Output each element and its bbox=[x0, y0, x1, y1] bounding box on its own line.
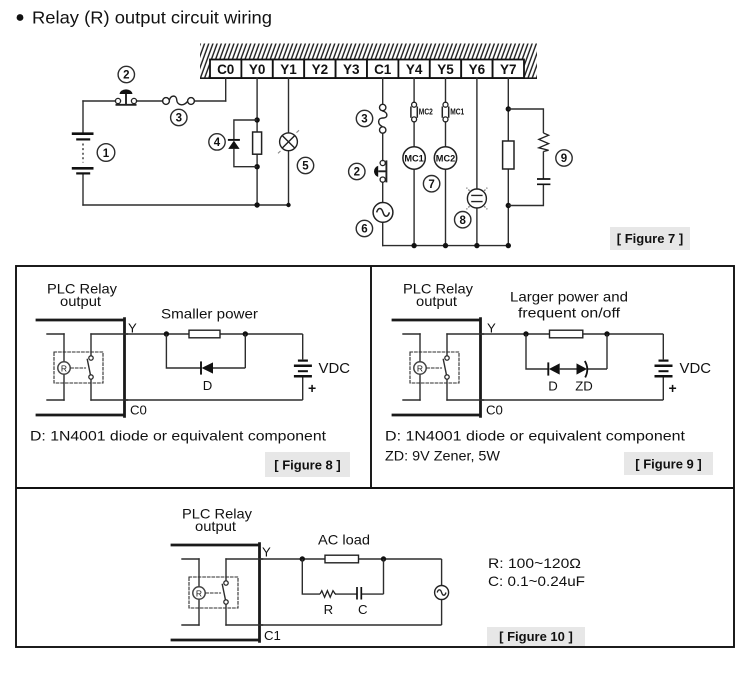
svg-text:Larger power and: Larger power and bbox=[510, 289, 628, 305]
svg-text:Y: Y bbox=[128, 321, 137, 336]
circled label 4 bbox=[209, 134, 225, 150]
junction node Y7 bottom corner bbox=[506, 243, 511, 248]
circled label 2 bbox=[118, 66, 134, 82]
AC source (6) bbox=[373, 203, 393, 223]
load resistor box on Y0 bbox=[253, 132, 262, 154]
wire battery bottom lead bbox=[82, 175, 84, 206]
svg-text:Y4: Y4 bbox=[406, 62, 423, 77]
wire C1 external (fig10) bbox=[260, 624, 442, 626]
neon lamp (8) bbox=[467, 188, 488, 210]
fuse (3) vertical on C1 bbox=[379, 104, 387, 133]
svg-text:2: 2 bbox=[123, 70, 129, 82]
resistor R zigzag (fig10) bbox=[320, 591, 336, 598]
Figure 9 tag bbox=[624, 452, 713, 475]
svg-text:AC load: AC load bbox=[318, 533, 370, 548]
svg-text:MC1: MC1 bbox=[404, 153, 423, 163]
wire bottom horizontal bbox=[83, 204, 289, 206]
wire Y external (fig8) bbox=[125, 333, 303, 335]
svg-text:Smaller power: Smaller power bbox=[161, 306, 258, 322]
junction node Y7 top bbox=[506, 106, 511, 111]
junction nodes on AC bottom wire bbox=[411, 243, 416, 248]
wire Y external (fig9) bbox=[481, 333, 664, 335]
junction node left (fig9) bbox=[523, 331, 528, 336]
junction node left (fig10) bbox=[300, 556, 305, 561]
junction node Y7 bottom bbox=[506, 203, 511, 208]
panel vertical divider bbox=[370, 266, 372, 488]
terminal strip bottom edge bbox=[200, 77, 537, 79]
svg-text:C1: C1 bbox=[264, 628, 281, 643]
wire C0 external (fig8) bbox=[125, 399, 303, 401]
svg-text:[ Figure 8 ]: [ Figure 8 ] bbox=[274, 458, 340, 473]
load resistor box (fig8) bbox=[189, 330, 220, 338]
snubber capacitor bbox=[537, 179, 550, 184]
svg-text:C0: C0 bbox=[486, 403, 503, 418]
zener diode ZD (fig9) bbox=[577, 363, 588, 374]
svg-text:VDC: VDC bbox=[319, 360, 351, 377]
wire Y4 column bbox=[413, 78, 415, 245]
wire Y external (fig10) bbox=[260, 558, 442, 560]
circled label 7 bbox=[423, 176, 439, 192]
circled label 3 (C1) bbox=[356, 110, 372, 126]
svg-text:Y3: Y3 bbox=[343, 62, 360, 77]
diode D (fig8) bbox=[200, 361, 202, 374]
svg-text:R: 100~120Ω: R: 100~120Ω bbox=[488, 556, 581, 571]
svg-text:ZD: 9V Zener, 5W: ZD: 9V Zener, 5W bbox=[385, 449, 500, 464]
svg-text:4: 4 bbox=[214, 137, 221, 149]
wire Y1 column upper bbox=[288, 78, 290, 133]
wire C0 drop bbox=[225, 78, 227, 101]
svg-text:C: C bbox=[358, 602, 368, 617]
svg-text:MC2: MC2 bbox=[419, 107, 433, 117]
svg-text:+: + bbox=[669, 380, 677, 396]
junction node Y0 top bbox=[254, 117, 259, 122]
svg-text:MC1: MC1 bbox=[450, 107, 464, 117]
diode branch wires (fig9) bbox=[526, 334, 607, 369]
wire Y1 column lower bbox=[288, 151, 290, 205]
svg-text:3: 3 bbox=[361, 114, 367, 126]
svg-text:VDC: VDC bbox=[680, 360, 712, 377]
Figure 8 tag bbox=[265, 452, 350, 477]
svg-text:D: 1N4001 diode or equivalent: D: 1N4001 diode or equivalent component bbox=[385, 429, 685, 444]
svg-text:5: 5 bbox=[302, 161, 309, 173]
svg-text:Y2: Y2 bbox=[312, 62, 329, 77]
svg-text:D: D bbox=[548, 379, 558, 394]
circled label 2 (C1) bbox=[349, 163, 365, 179]
load resistor box on Y7 bbox=[503, 141, 514, 169]
Figure 7 tag bbox=[610, 227, 690, 250]
terminal strip hatched body bbox=[200, 44, 537, 79]
PLC relay output block (Figure 9) bbox=[393, 282, 484, 417]
fuse (3) horizontal bbox=[163, 96, 195, 105]
Figure 10 tag bbox=[487, 627, 585, 646]
svg-text:D: D bbox=[203, 378, 213, 393]
svg-text:Y1: Y1 bbox=[280, 62, 297, 77]
svg-text:C: 0.1~0.24uF: C: 0.1~0.24uF bbox=[488, 574, 585, 589]
capacitor C (fig10) bbox=[357, 587, 361, 600]
diode branch wires (fig8) bbox=[166, 334, 245, 368]
wire top horizontal bbox=[83, 100, 226, 102]
battery (1) bbox=[72, 134, 94, 174]
panel horizontal divider bbox=[16, 487, 734, 489]
junction node Y0 on bottom wire bbox=[254, 202, 259, 207]
coil MC1 bbox=[403, 147, 425, 169]
snubber branch wires bbox=[508, 109, 543, 206]
battery VDC (fig9) bbox=[662, 334, 664, 400]
svg-text:1: 1 bbox=[103, 148, 110, 160]
junction node right (fig10) bbox=[381, 556, 386, 561]
snubber resistor zigzag bbox=[539, 133, 549, 152]
svg-text:Y: Y bbox=[262, 545, 271, 560]
svg-text:[ Figure 10 ]: [ Figure 10 ] bbox=[499, 629, 573, 644]
pushbutton switch (2) bbox=[115, 89, 136, 104]
svg-text:Y5: Y5 bbox=[437, 62, 454, 77]
wire battery top lead bbox=[82, 101, 84, 133]
svg-text:[ Figure 7 ]: [ Figure 7 ] bbox=[617, 231, 683, 246]
wire C0 external (fig9) bbox=[481, 399, 664, 401]
circled label 8 bbox=[455, 212, 471, 228]
svg-text:frequent on/off: frequent on/off bbox=[518, 305, 620, 321]
PLC relay output block (Figure 8) bbox=[37, 282, 128, 417]
svg-text:[ Figure 9 ]: [ Figure 9 ] bbox=[635, 457, 701, 472]
wire Y5 column bbox=[445, 78, 447, 245]
battery VDC (fig8) bbox=[302, 334, 304, 400]
circled label 5 bbox=[297, 157, 313, 173]
svg-text:C0: C0 bbox=[130, 403, 147, 418]
svg-text:7: 7 bbox=[428, 179, 434, 191]
svg-text:6: 6 bbox=[361, 224, 367, 236]
junction node Y1 bottom corner bbox=[286, 203, 290, 207]
svg-text:Y7: Y7 bbox=[500, 62, 517, 77]
svg-text:Y6: Y6 bbox=[469, 62, 486, 77]
diode D (fig9) bbox=[547, 362, 549, 375]
load resistor box (fig9) bbox=[550, 330, 583, 338]
junction node right (fig8) bbox=[243, 331, 248, 336]
wire Y6 column bbox=[476, 78, 478, 245]
wire bottom horizontal (AC circuit) bbox=[383, 245, 509, 247]
circled label 6 bbox=[356, 220, 372, 236]
svg-text:D: 1N4001 diode or equivalent: D: 1N4001 diode or equivalent component bbox=[30, 429, 326, 444]
wire C1 column bbox=[382, 78, 384, 245]
circled label 9 bbox=[556, 150, 572, 166]
svg-text:C1: C1 bbox=[374, 62, 392, 77]
junction node left (fig8) bbox=[164, 331, 169, 336]
contact MC1 on Y5 bbox=[442, 102, 448, 122]
diode (4) branch wires bbox=[234, 120, 257, 167]
svg-text:8: 8 bbox=[459, 215, 466, 227]
svg-text:MC2: MC2 bbox=[436, 153, 455, 163]
AC source (fig10) bbox=[441, 559, 443, 625]
svg-text:+: + bbox=[308, 380, 316, 396]
pushbutton switch (2) vertical on C1 bbox=[374, 160, 386, 182]
PLC relay output block (Figure 10) bbox=[172, 507, 263, 642]
diode (4) bbox=[228, 139, 240, 141]
coil MC2 bbox=[434, 147, 456, 169]
lamp (5) bbox=[278, 130, 299, 153]
svg-text:ZD: ZD bbox=[575, 379, 593, 394]
svg-text:3: 3 bbox=[176, 113, 182, 125]
svg-text:Relay (R) output circuit wirin: Relay (R) output circuit wiring bbox=[32, 8, 272, 28]
outer panel box bbox=[16, 266, 734, 647]
contact MC2 on Y4 bbox=[411, 102, 417, 122]
wire Y0 column bbox=[256, 78, 258, 205]
svg-text:Y0: Y0 bbox=[249, 62, 266, 77]
terminal cells C0..Y7 bbox=[210, 60, 524, 79]
svg-text:C0: C0 bbox=[217, 62, 234, 77]
circled label 1 bbox=[97, 144, 115, 162]
RC branch wires (fig10) bbox=[302, 559, 383, 594]
svg-text:R: R bbox=[324, 602, 334, 617]
svg-text:2: 2 bbox=[354, 167, 360, 179]
wire Y7 column bbox=[507, 78, 509, 245]
svg-text:Y: Y bbox=[487, 321, 496, 336]
svg-text:9: 9 bbox=[561, 153, 567, 165]
circled label 3 bbox=[171, 109, 187, 125]
junction node right (fig9) bbox=[604, 331, 609, 336]
load resistor box (fig10) bbox=[325, 555, 359, 563]
junction node Y0 bottom bbox=[254, 164, 259, 169]
title bullet bbox=[17, 14, 24, 21]
